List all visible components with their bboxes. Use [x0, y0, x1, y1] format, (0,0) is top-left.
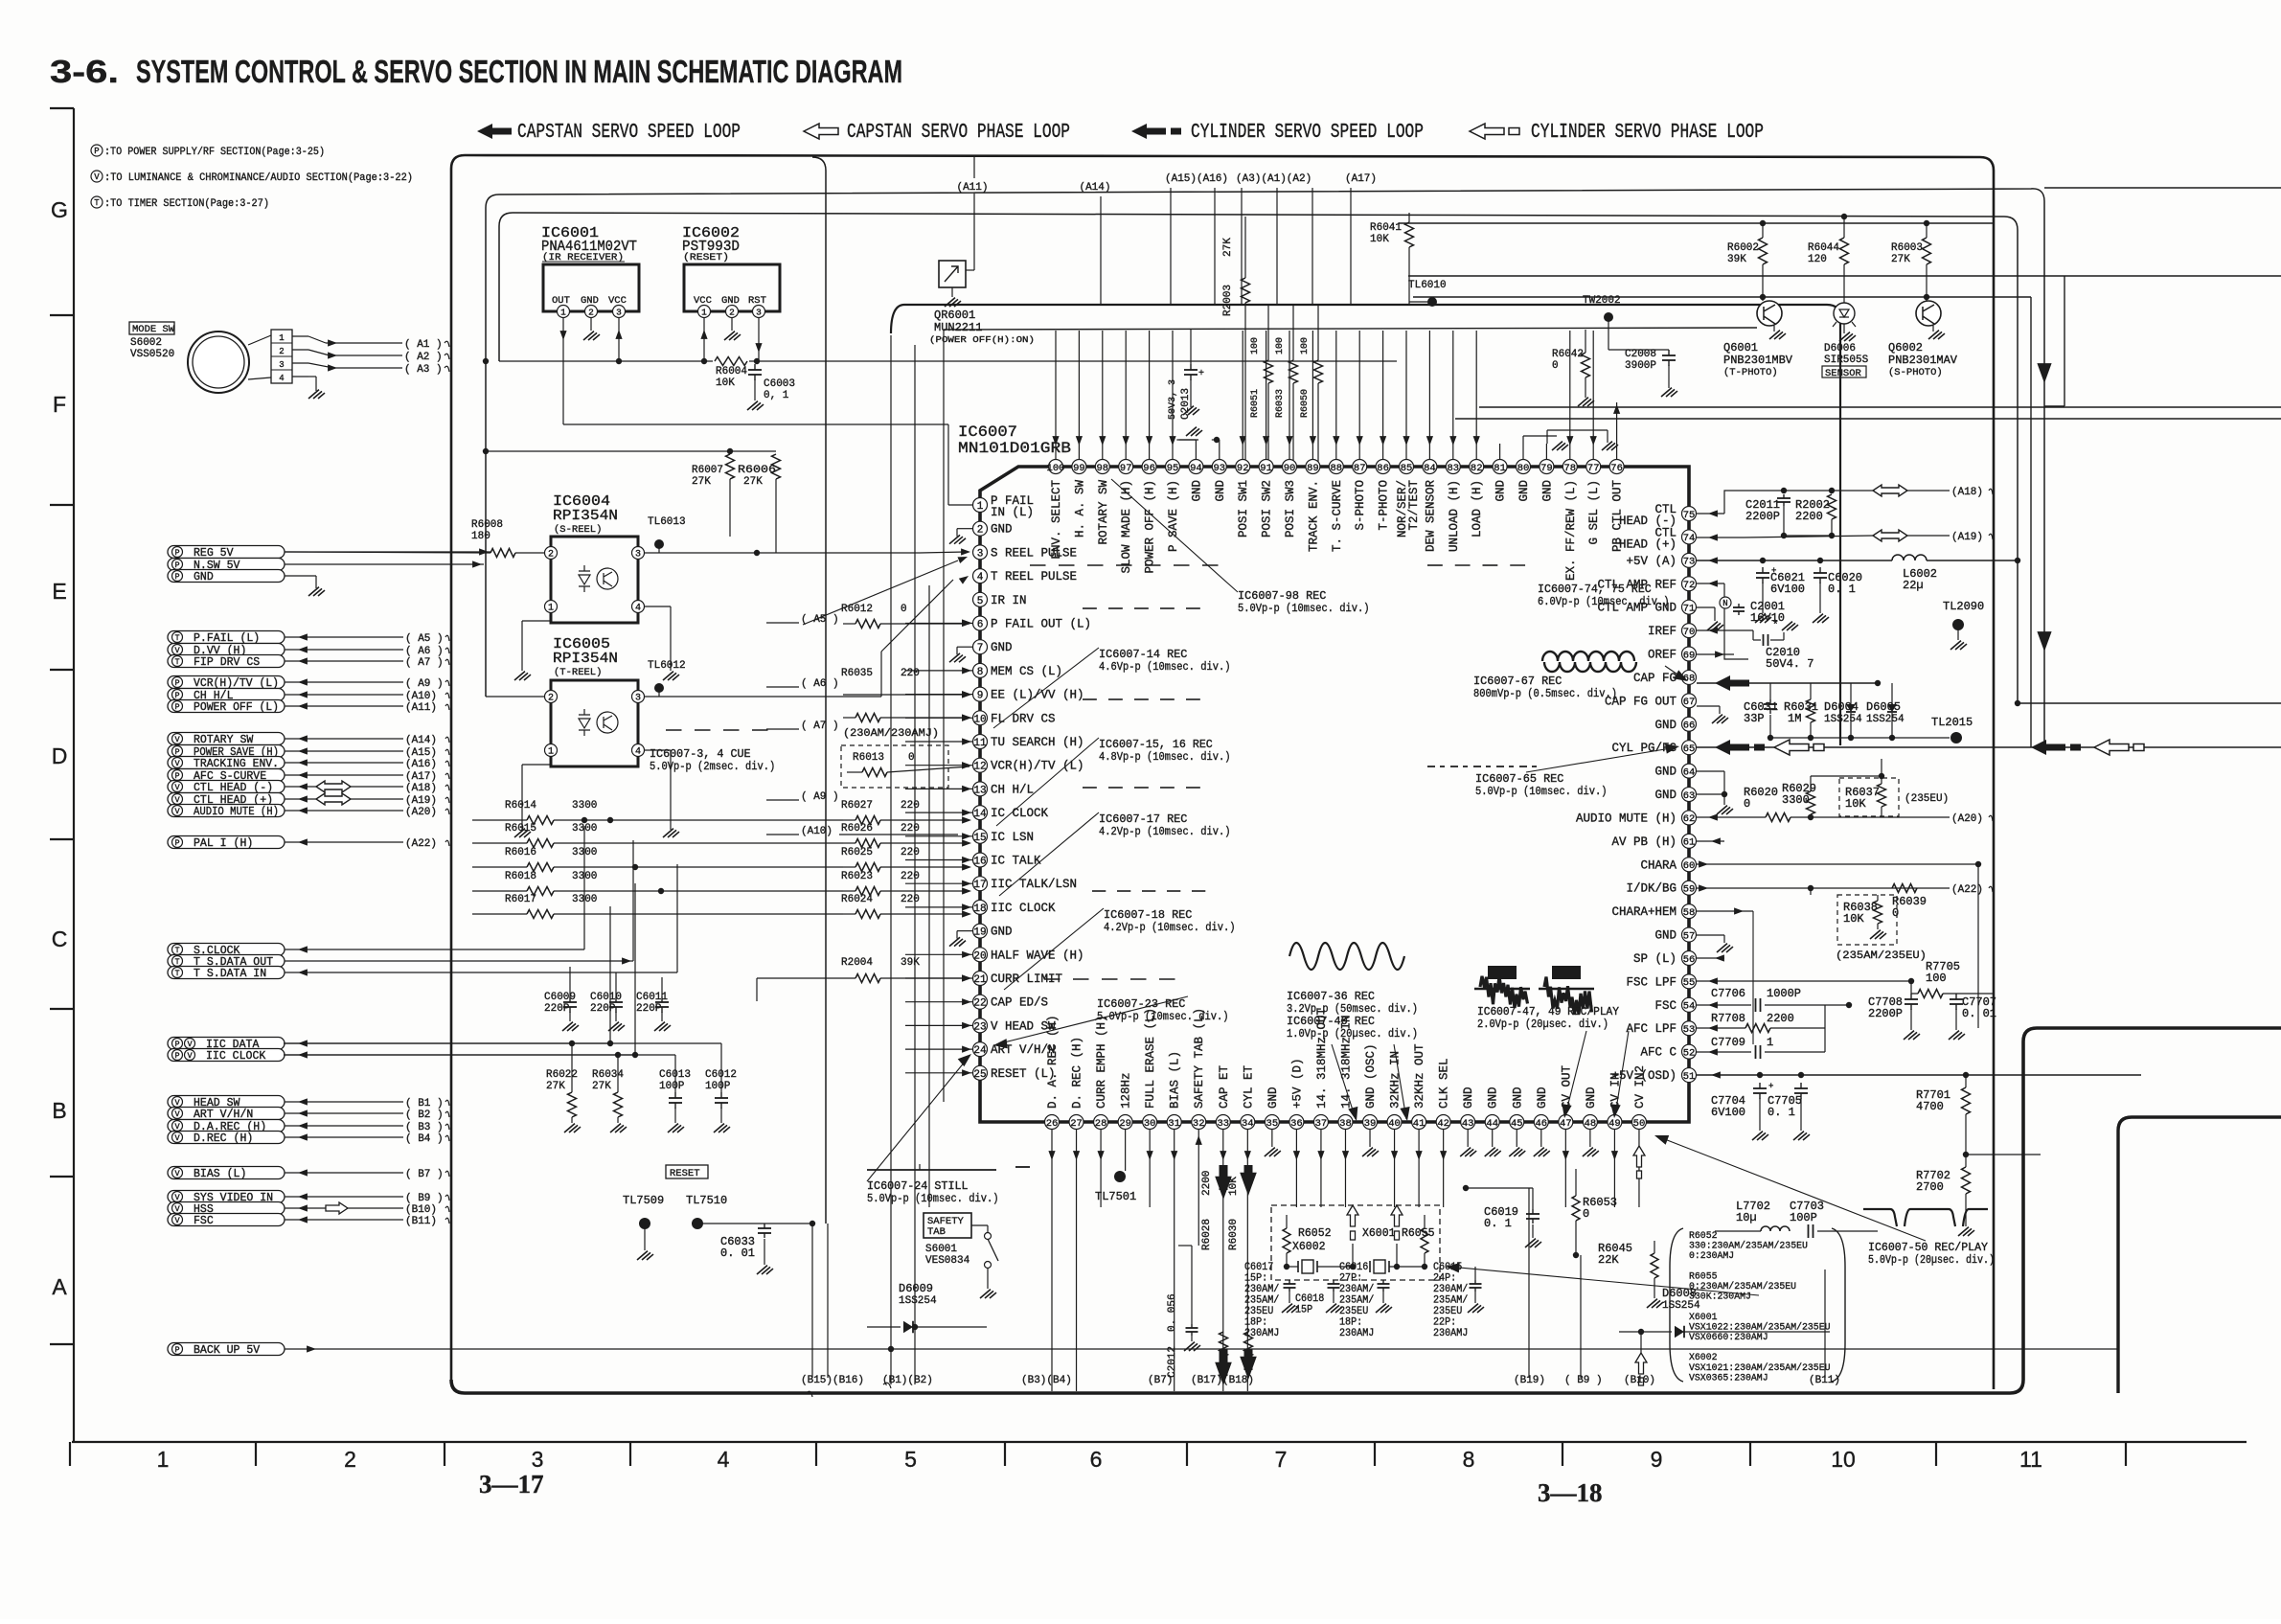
svg-text:R6052: R6052 — [1298, 1227, 1332, 1240]
svg-text:73: 73 — [1683, 557, 1696, 568]
svg-text:40: 40 — [1388, 1118, 1401, 1130]
wire right verticals — [2064, 276, 2065, 406]
svg-text:27K: 27K — [1222, 238, 1234, 257]
svg-text:P: P — [174, 1345, 179, 1355]
svg-text:IIC CLOCK: IIC CLOCK — [206, 1050, 265, 1063]
svg-text:G: G — [51, 197, 68, 222]
svg-text:55: 55 — [1683, 977, 1696, 989]
svg-text:RPI354N: RPI354N — [553, 508, 618, 524]
svg-text:V: V — [174, 1216, 180, 1225]
svg-text:P: P — [174, 771, 179, 781]
svg-text:C7706: C7706 — [1711, 987, 1745, 1000]
svg-text:2: 2 — [548, 550, 554, 560]
wire right horizontals — [2044, 187, 2281, 189]
svg-text:2200: 2200 — [1795, 510, 1823, 523]
svg-text:VSX0660:230AMJ: VSX0660:230AMJ — [1689, 1332, 1768, 1343]
node TL7501 — [1114, 1171, 1126, 1182]
svg-text:2: 2 — [279, 347, 284, 356]
svg-text:TU SEARCH (H): TU SEARCH (H) — [991, 736, 1084, 749]
svg-text:AUDIO MUTE (H): AUDIO MUTE (H) — [1576, 812, 1677, 825]
svg-text:10K: 10K — [1370, 234, 1389, 245]
svg-text:(B10): (B10) — [1624, 1375, 1655, 1386]
svg-text:Q6001: Q6001 — [1723, 341, 1758, 355]
svg-text:0: 0 — [1583, 1207, 1589, 1221]
svg-text:(A20): (A20) — [1951, 813, 1983, 825]
svg-text:GND: GND — [1654, 766, 1677, 779]
svg-text:GND: GND — [1654, 719, 1677, 732]
svg-text:99: 99 — [1073, 463, 1085, 474]
svg-text:(POWER OFF(H):ON): (POWER OFF(H):ON) — [929, 334, 1035, 345]
svg-text:C6017: C6017 — [1244, 1262, 1273, 1273]
wire pin73 +5V(A) — [1697, 560, 1892, 561]
svg-text:HALF WAVE (H): HALF WAVE (H) — [991, 949, 1084, 962]
waveform note IC6007-98 — [1030, 564, 1046, 566]
svg-text:6V100: 6V100 — [1711, 1106, 1745, 1119]
waveform note IC6007-24 STILL — [867, 1169, 996, 1171]
svg-text:3300: 3300 — [572, 800, 597, 812]
svg-text:CV OUT: CV OUT — [1560, 1064, 1573, 1109]
svg-text:T: T — [94, 198, 100, 208]
svg-text:IN (L): IN (L) — [991, 506, 1034, 519]
node CH H/L — [168, 689, 285, 701]
svg-text:20: 20 — [973, 950, 986, 962]
svg-text:TW2002: TW2002 — [1583, 295, 1621, 307]
svg-text:66: 66 — [1683, 721, 1696, 732]
wire fg row — [1770, 698, 1906, 700]
svg-text:230AM/: 230AM/ — [1339, 1284, 1374, 1295]
svg-text:18P:: 18P: — [1339, 1317, 1362, 1329]
svg-text:28: 28 — [1095, 1118, 1107, 1130]
svg-text:(B10): (B10) — [405, 1204, 437, 1216]
svg-text:R6042: R6042 — [1552, 349, 1584, 360]
svg-text:(B1)(B2): (B1)(B2) — [882, 1375, 933, 1386]
svg-text:11: 11 — [973, 738, 987, 749]
svg-text:R6007: R6007 — [692, 465, 723, 476]
svg-text:2: 2 — [548, 694, 554, 704]
svg-text:R6008: R6008 — [471, 519, 503, 531]
svg-text:IC CLOCK: IC CLOCK — [991, 807, 1049, 820]
svg-text:QR6001: QR6001 — [934, 309, 975, 322]
node POWER SAVE — [168, 745, 285, 758]
svg-text:69: 69 — [1683, 650, 1696, 661]
section legend — [91, 145, 103, 156]
svg-text:R6044: R6044 — [1808, 242, 1839, 254]
waveform sine IC6007-36 — [1289, 943, 1404, 970]
svg-text:B: B — [52, 1098, 66, 1123]
svg-text:17: 17 — [973, 880, 986, 891]
svg-text:1: 1 — [279, 333, 284, 343]
svg-text:( B4 ): ( B4 ) — [405, 1133, 444, 1145]
svg-text:4: 4 — [977, 572, 984, 583]
svg-text:T: T — [174, 657, 179, 667]
svg-text:(B15)(B16): (B15)(B16) — [801, 1375, 864, 1386]
svg-text:R6022: R6022 — [546, 1069, 578, 1081]
node BIAS — [168, 1167, 285, 1179]
svg-text:( B2 ): ( B2 ) — [405, 1109, 444, 1121]
capacitor C6003 — [754, 364, 756, 370]
transistor Q6002 — [1926, 297, 1927, 313]
node BACK UP 5V — [168, 1343, 285, 1356]
node D.REC — [168, 1132, 285, 1144]
svg-text:220: 220 — [901, 668, 920, 679]
svg-text:FSC: FSC — [1654, 999, 1677, 1013]
svg-text:V: V — [174, 1122, 180, 1132]
svg-text:D6006: D6006 — [1824, 343, 1856, 355]
node FIP DRV CS — [168, 655, 285, 668]
svg-text:POSI SW1: POSI SW1 — [1237, 480, 1250, 538]
svg-text:(A19): (A19) — [405, 795, 437, 807]
svg-text:5.0Vp-p (20µsec. div.): 5.0Vp-p (20µsec. div.) — [1868, 1254, 1995, 1267]
svg-text:V: V — [174, 1193, 180, 1202]
wire IC6005 pins — [486, 696, 544, 698]
svg-text:P: P — [174, 702, 179, 712]
svg-text:UNLOAD (H): UNLOAD (H) — [1448, 480, 1461, 552]
svg-text:( B9 ): ( B9 ) — [1564, 1375, 1603, 1386]
svg-text:I/DK/BG: I/DK/BG — [1626, 882, 1677, 896]
capacitor C2011 — [1697, 513, 1724, 515]
svg-text:1: 1 — [977, 501, 984, 513]
svg-text:44: 44 — [1486, 1118, 1498, 1130]
svg-text:3900P: 3900P — [1625, 360, 1656, 372]
hollow arrow up pin50 — [1633, 1146, 1645, 1167]
svg-text:2: 2 — [344, 1447, 356, 1472]
svg-text:0. 056: 0. 056 — [1167, 1293, 1178, 1332]
waveform IC6007-50 — [1863, 1209, 1988, 1226]
svg-text:GND: GND — [1190, 480, 1203, 502]
IC U6007 right pins 75-51 — [1682, 507, 1697, 521]
wire top pin stubs — [1055, 331, 1057, 459]
svg-text:IC TALK: IC TALK — [991, 855, 1041, 868]
capacitor C6020 — [1817, 558, 1823, 563]
svg-text:1SS254: 1SS254 — [899, 1295, 937, 1307]
node CTL HEAD(-) — [168, 781, 285, 793]
svg-text:2.0Vp-p (20µsec. div.): 2.0Vp-p (20µsec. div.) — [1477, 1018, 1608, 1031]
svg-text:AFC LPF: AFC LPF — [1626, 1022, 1677, 1036]
svg-text:FSC: FSC — [194, 1215, 214, 1227]
svg-text:SIR505S: SIR505S — [1824, 355, 1869, 366]
wire branch 862 — [812, 157, 826, 1224]
wire outer loop box — [451, 155, 1994, 1389]
svg-text:GND: GND — [991, 641, 1013, 654]
svg-text:220P: 220P — [590, 1003, 616, 1015]
svg-text:5.0Vp-p (2msec. div.): 5.0Vp-p (2msec. div.) — [650, 761, 775, 773]
svg-text:V: V — [174, 759, 180, 768]
svg-text:230AMJ: 230AMJ — [1339, 1328, 1374, 1339]
svg-text:SLOW MADE (H): SLOW MADE (H) — [1120, 480, 1133, 574]
svg-text:IC6007-18 REC: IC6007-18 REC — [1104, 909, 1192, 922]
svg-text:IC6007-15, 16 REC: IC6007-15, 16 REC — [1099, 739, 1213, 751]
svg-text:X6001: X6001 — [1362, 1227, 1396, 1240]
wire mid bus 3 — [928, 585, 930, 1207]
svg-text:R2004: R2004 — [841, 957, 873, 969]
svg-text:1000P: 1000P — [1767, 987, 1801, 1000]
svg-text:V: V — [174, 807, 180, 816]
svg-text:GND: GND — [1214, 480, 1227, 502]
svg-text:(B7): (B7) — [1148, 1375, 1173, 1386]
svg-text:235EU: 235EU — [1339, 1306, 1368, 1317]
node T S.DATA OUT — [168, 955, 285, 968]
svg-text:C7709: C7709 — [1711, 1036, 1745, 1049]
svg-text:0. 1: 0. 1 — [1768, 1106, 1795, 1119]
wire IIC rows — [284, 1042, 721, 1044]
svg-text:39: 39 — [1364, 1118, 1377, 1130]
svg-text:C: C — [52, 926, 68, 951]
svg-text:( A2 ): ( A2 ) — [404, 352, 443, 363]
svg-text:1SS254: 1SS254 — [1866, 714, 1905, 725]
svg-text:R7708: R7708 — [1711, 1012, 1745, 1025]
transistor Q6001 — [1762, 297, 1764, 313]
svg-text:3: 3 — [616, 307, 622, 317]
node D.A.REC — [168, 1120, 285, 1132]
svg-text:80: 80 — [1517, 463, 1530, 474]
svg-text:230AMJ: 230AMJ — [1244, 1328, 1279, 1339]
svg-text:77: 77 — [1587, 463, 1600, 474]
node AUDIO MUTE — [168, 805, 285, 817]
svg-text:57: 57 — [1683, 930, 1696, 942]
svg-text:3-6.: 3-6. — [50, 54, 119, 89]
node HEAD SW — [168, 1096, 285, 1109]
svg-text:+5V (D): +5V (D) — [1290, 1058, 1304, 1109]
svg-text:( A5 ): ( A5 ) — [801, 614, 839, 626]
svg-text:33P: 33P — [1744, 712, 1765, 725]
svg-text:IC6007-17 REC: IC6007-17 REC — [1099, 813, 1187, 826]
svg-text:58: 58 — [1683, 907, 1696, 919]
svg-text:R6025: R6025 — [841, 847, 873, 858]
svg-text:0: 0 — [1552, 360, 1559, 372]
svg-text:IC6007-24 STILL: IC6007-24 STILL — [867, 1180, 969, 1193]
svg-text:AFC C: AFC C — [1640, 1046, 1677, 1060]
svg-text:235AM/: 235AM/ — [1244, 1295, 1279, 1307]
svg-text:PNB2301MBV: PNB2301MBV — [1723, 354, 1793, 367]
svg-text:R6012: R6012 — [841, 604, 873, 615]
resistor R6052 in box — [1283, 1228, 1290, 1253]
IC U6007 left pins 1-25 — [973, 498, 988, 513]
svg-text:RPI354N: RPI354N — [553, 651, 618, 667]
svg-text:330K:230AMJ: 330K:230AMJ — [1689, 1292, 1751, 1303]
svg-text:GND: GND — [1511, 1086, 1524, 1109]
junction dots resistor rows — [607, 817, 613, 823]
svg-text:GND: GND — [1517, 480, 1531, 502]
svg-text:DEW SENSOR: DEW SENSOR — [1424, 480, 1437, 553]
node IIC DATA — [168, 1038, 285, 1050]
svg-text:3300: 3300 — [572, 871, 597, 882]
svg-text:N: N — [1722, 599, 1727, 608]
node VCR/TV — [168, 676, 285, 689]
svg-text:( B9 ): ( B9 ) — [405, 1193, 444, 1204]
svg-text:45: 45 — [1511, 1118, 1523, 1130]
svg-text:33: 33 — [1217, 1118, 1229, 1130]
svg-text:2700: 2700 — [1916, 1180, 1944, 1194]
svg-text:6V100: 6V100 — [1770, 583, 1805, 596]
svg-text:V: V — [174, 735, 180, 744]
svg-text:P: P — [174, 1040, 179, 1049]
svg-text:27K: 27K — [592, 1081, 611, 1092]
svg-text:0. 1: 0. 1 — [1828, 583, 1856, 596]
svg-text:220: 220 — [901, 800, 920, 812]
wire mode sw to A1-A3 — [308, 336, 326, 343]
svg-text:100P: 100P — [705, 1081, 731, 1092]
svg-text:22µ: 22µ — [1903, 579, 1924, 592]
svg-text:CHARA: CHARA — [1640, 858, 1677, 872]
svg-text:TL6013: TL6013 — [648, 516, 686, 528]
svg-text:GND: GND — [194, 571, 214, 583]
svg-text:CV IN: CV IN — [1608, 1072, 1622, 1109]
svg-text:P FAIL OUT (L): P FAIL OUT (L) — [991, 618, 1091, 631]
svg-text:V: V — [174, 1169, 180, 1178]
svg-text:P: P — [174, 691, 179, 700]
ground pin64 — [1697, 770, 1724, 772]
svg-text:P: P — [174, 747, 179, 757]
svg-text:E: E — [52, 579, 66, 604]
wire vertical 506 — [483, 358, 489, 364]
svg-text:( A1 ): ( A1 ) — [404, 339, 443, 351]
waveform burst IC6007-47 49 — [1480, 976, 1528, 1008]
svg-text:27K: 27K — [1891, 254, 1910, 265]
svg-text:93: 93 — [1213, 463, 1225, 474]
svg-text:T REEL PULSE: T REEL PULSE — [991, 570, 1077, 583]
svg-text:IC6007-36 REC: IC6007-36 REC — [1287, 991, 1375, 1003]
svg-text:R6002: R6002 — [1727, 242, 1759, 254]
svg-text:IC6007-40 REC: IC6007-40 REC — [1287, 1016, 1375, 1028]
svg-text:25: 25 — [973, 1069, 986, 1081]
svg-text:8: 8 — [1463, 1447, 1475, 1472]
svg-text:TAB: TAB — [927, 1226, 946, 1238]
svg-text:128Hz: 128Hz — [1120, 1072, 1133, 1109]
svg-text:36: 36 — [1290, 1118, 1303, 1130]
svg-text:100P: 100P — [1790, 1211, 1817, 1224]
svg-text:V: V — [187, 1051, 193, 1061]
svg-text:235EU: 235EU — [1244, 1306, 1273, 1317]
svg-text:5.0Vp-p (10msec. div.): 5.0Vp-p (10msec. div.) — [1238, 603, 1370, 615]
wire vcc rail — [499, 360, 713, 362]
svg-text:SENSOR: SENSOR — [1825, 368, 1862, 379]
svg-text:T: T — [174, 969, 179, 978]
svg-text:1SS254: 1SS254 — [1824, 714, 1862, 725]
svg-text:+: + — [1198, 369, 1204, 379]
svg-text:0: 0 — [1892, 906, 1899, 920]
svg-text:C2008: C2008 — [1625, 349, 1656, 360]
svg-text:P: P — [174, 548, 179, 558]
svg-text:(B11): (B11) — [405, 1216, 437, 1227]
ground top gnd pins — [1179, 439, 1198, 441]
wire pin61 AV PB — [1697, 840, 1724, 842]
svg-text:IC6007-98 REC: IC6007-98 REC — [1238, 590, 1326, 603]
svg-text:P SAVE (H): P SAVE (H) — [1167, 480, 1180, 552]
wire inner top 318 — [891, 305, 1840, 745]
svg-text:4: 4 — [635, 604, 641, 614]
svg-text:(235EU): (235EU) — [1905, 793, 1949, 805]
svg-text:32KHz OUT: 32KHz OUT — [1413, 1043, 1426, 1109]
svg-text:10: 10 — [973, 714, 986, 725]
svg-text:IC LSN: IC LSN — [991, 831, 1034, 844]
svg-text:( A9 ): ( A9 ) — [801, 791, 839, 803]
svg-text:C2012: C2012 — [1167, 1346, 1178, 1378]
svg-text:74: 74 — [1683, 533, 1696, 544]
svg-text:TL6012: TL6012 — [648, 660, 686, 672]
node S.CLOCK — [168, 944, 285, 956]
svg-text:2200: 2200 — [1201, 1171, 1213, 1196]
svg-text:BIAS (L): BIAS (L) — [194, 1168, 246, 1180]
wire pin70 IREF — [1697, 629, 1753, 631]
svg-text:18: 18 — [973, 903, 986, 915]
svg-text:POSI SW2: POSI SW2 — [1261, 480, 1274, 538]
svg-text:IC6007-14 REC: IC6007-14 REC — [1099, 649, 1187, 661]
waveform note IC6007-15 16 — [1083, 698, 1097, 700]
waveform note IC6007-74 75 — [1427, 564, 1443, 566]
svg-text:56: 56 — [1683, 954, 1696, 966]
svg-text:31: 31 — [1168, 1118, 1180, 1130]
svg-text:CAPSTAN SERVO PHASE LOOP: CAPSTAN SERVO PHASE LOOP — [847, 122, 1070, 144]
svg-text:CYL ET: CYL ET — [1242, 1064, 1255, 1109]
svg-text:R6015: R6015 — [505, 823, 536, 835]
svg-text:GND: GND — [991, 523, 1013, 537]
svg-text:R6013: R6013 — [853, 752, 884, 764]
svg-text:T: T — [174, 946, 179, 955]
wire sclock bus — [284, 949, 584, 950]
svg-text:2200: 2200 — [1767, 1012, 1794, 1025]
svg-text:(A19): (A19) — [1951, 532, 1983, 543]
svg-text:(A15)(A16): (A15)(A16) — [1165, 173, 1228, 185]
svg-text:V: V — [94, 172, 100, 182]
wire pin59 I/DK/BG — [1697, 887, 1950, 889]
svg-text:100P: 100P — [659, 1081, 685, 1092]
svg-text:T2/TEST: T2/TEST — [1407, 480, 1421, 531]
svg-text:100: 100 — [1926, 972, 1947, 985]
node P.FAIL — [168, 631, 285, 644]
svg-text:VCR(H)/TV (L): VCR(H)/TV (L) — [991, 760, 1084, 773]
svg-text:1: 1 — [701, 307, 707, 317]
svg-text:49: 49 — [1608, 1118, 1621, 1130]
svg-text:61: 61 — [1683, 837, 1696, 849]
svg-text:GND: GND — [1462, 1086, 1475, 1109]
svg-text:3300: 3300 — [572, 823, 597, 835]
left ruler — [73, 108, 75, 1442]
svg-text:88: 88 — [1330, 463, 1342, 474]
svg-text:10: 10 — [1831, 1447, 1856, 1472]
capacitor C7706 — [1697, 1004, 1751, 1006]
svg-text:TL7509: TL7509 — [623, 1194, 664, 1207]
svg-text:0:230AMJ: 0:230AMJ — [1689, 1250, 1734, 1262]
svg-text:3: 3 — [279, 360, 284, 370]
svg-text:GND (OSC): GND (OSC) — [1364, 1043, 1378, 1109]
svg-text:X6002: X6002 — [1292, 1241, 1326, 1253]
svg-text:GND: GND — [991, 926, 1013, 939]
svg-text:GND: GND — [1654, 929, 1677, 943]
svg-text:52: 52 — [1683, 1047, 1696, 1059]
waveform note IC6007-23 — [1044, 978, 1061, 980]
resistor R6038 dashed — [1837, 895, 1897, 945]
svg-text:59: 59 — [1683, 884, 1696, 896]
svg-text:39K: 39K — [1727, 254, 1746, 265]
svg-text:(A3)(A1)(A2): (A3)(A1)(A2) — [1236, 173, 1312, 185]
svg-text:R6014: R6014 — [505, 800, 536, 812]
svg-text:IREF: IREF — [1648, 625, 1677, 638]
svg-text:FIP DRV CS: FIP DRV CS — [194, 656, 260, 669]
svg-text:V: V — [174, 1133, 180, 1143]
svg-text:0, 1: 0, 1 — [764, 390, 789, 401]
svg-text:2: 2 — [588, 307, 594, 317]
svg-text:30: 30 — [1144, 1118, 1156, 1130]
wire heavy bottom loop — [451, 1028, 2281, 1393]
svg-text:27K: 27K — [546, 1081, 565, 1092]
svg-text:BACK UP 5V: BACK UP 5V — [194, 1344, 260, 1357]
wire b15 b16 drops — [811, 1224, 813, 1378]
svg-text:TL6010: TL6010 — [1408, 280, 1447, 291]
svg-text:T S.DATA IN: T S.DATA IN — [194, 968, 266, 980]
node AFC S-CURVE — [168, 769, 285, 782]
svg-text:P: P — [94, 147, 99, 156]
node N.SW 5V — [168, 559, 285, 571]
